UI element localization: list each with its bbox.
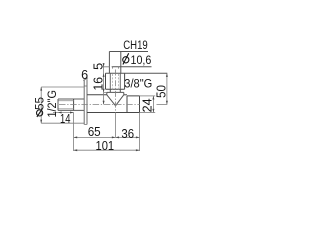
wire: washer [107, 92, 124, 94]
wire: flange caps [84, 86, 87, 124]
node B: flange sides [84, 79, 87, 124]
node A: pipe outline [58, 99, 84, 110]
svg-text:3/8"G: 3/8"G [124, 76, 152, 90]
svg-text:50: 50 [154, 85, 168, 98]
svg-text:14: 14 [60, 112, 71, 126]
wire: 50 dim line [166, 73, 168, 104]
node: arrowheads [40, 63, 168, 151]
svg-text:36: 36 [121, 127, 134, 141]
svg-text:16: 16 [92, 77, 106, 91]
wire: flare cone V [107, 95, 124, 106]
wire: 24 dim line [152, 96, 154, 113]
wire: outlet axis witness solid [114, 117, 116, 138]
svg-text:101: 101 [96, 139, 115, 153]
wire: D55 top witness [41, 86, 84, 88]
wire: collar [110, 89, 120, 92]
wire: pipe divider [73, 99, 75, 110]
svg-text:24: 24 [140, 98, 154, 112]
wire: nut facets [110, 73, 120, 89]
wire: 65-36 dim line [74, 136, 140, 138]
wire: nut outline [106, 73, 125, 89]
wire: stub sides [109, 52, 120, 74]
wire: nut top and 50 witness [106, 72, 168, 74]
svg-text:5: 5 [92, 63, 106, 70]
wire: 5-16 dim line [103, 63, 105, 104]
svg-text:6: 6 [81, 68, 88, 82]
node: texts [32, 38, 168, 153]
wire: centerline right segment [157, 103, 168, 105]
wire: body bottom [87, 112, 140, 114]
wire: 24 bottom witness [140, 112, 156, 114]
wire: body right section [127, 96, 140, 113]
wire: hidden hole dashed [112, 67, 118, 69]
wire: 6 dim tick [83, 78, 88, 81]
wire: body top right short [124, 94, 127, 96]
svg-text:10,6: 10,6 [131, 53, 152, 67]
wire: 101 dim line [74, 149, 140, 151]
wire: 16 bottom witness [102, 67, 110, 93]
wire: thread root lines [59, 101, 74, 109]
wire: left witness vertical [73, 113, 75, 152]
wire: body top left [87, 94, 107, 96]
node: diameter symbol for 55 [35, 109, 44, 117]
svg-text:65: 65 [88, 125, 101, 139]
wire: centerline horizontal [59, 103, 140, 105]
wire: stub top and hole leader [112, 66, 152, 68]
wire: D55 dim line [40, 87, 42, 123]
wire: 14 dim line [53, 112, 74, 114]
wire: CH19 leader [109, 51, 148, 53]
wire: right witness vertical [139, 113, 141, 152]
svg-text:1/2"G: 1/2"G [45, 90, 59, 118]
svg-text:CH19: CH19 [123, 38, 148, 52]
node: diameter symbol for 10,6 [123, 53, 129, 64]
wire: D55 bottom witness [41, 122, 84, 124]
wire: 24 top witness [140, 95, 156, 97]
wire: outlet axis vertical [114, 70, 116, 117]
